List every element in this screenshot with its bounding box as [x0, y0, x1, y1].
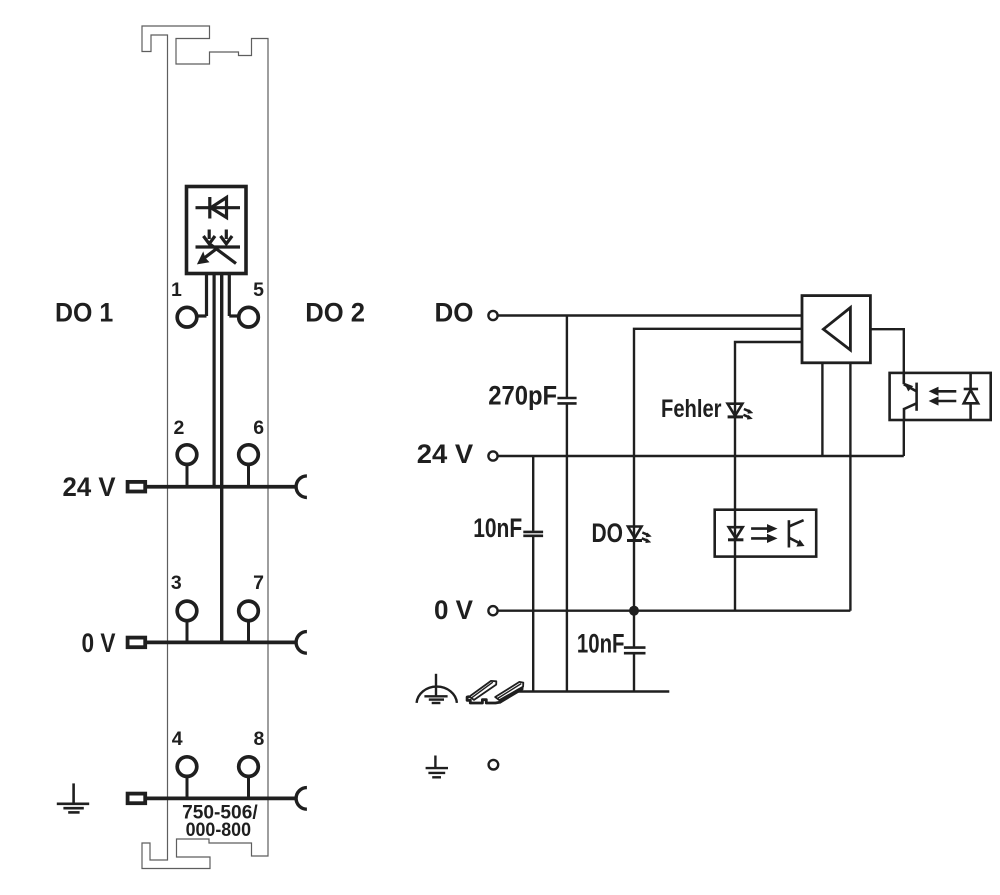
pin wires from LED box: [198, 274, 238, 643]
connector square 0V: [128, 638, 146, 648]
wire amplifier pin B to 24V: [849, 363, 851, 456]
svg-text:1: 1: [171, 279, 182, 301]
clamp arc 24V: [296, 476, 307, 498]
terminal 4: [177, 757, 197, 777]
stub terminal 3 to 0V: [186, 621, 189, 643]
capacitor C1 270pF plates: [557, 398, 576, 403]
terminal 24V: [488, 451, 497, 460]
wire pin to 0V: [220, 274, 223, 643]
wire amplifier input 2: [634, 329, 802, 611]
svg-text:0 V: 0 V: [82, 628, 116, 658]
svg-text:270pF: 270pF: [488, 381, 557, 411]
LED D2 (photo element, inside box bottom): [196, 230, 241, 264]
terminal 2: [177, 445, 197, 465]
stub terminal 7 to 0V: [247, 621, 250, 643]
svg-text:4: 4: [172, 728, 183, 750]
module outline 750-506: [142, 26, 268, 869]
LED DO (indicator): [627, 527, 651, 543]
stub terminal 6 to 24V: [247, 465, 250, 487]
wire 24V rail (module): [146, 485, 297, 489]
stub terminal 2 to 24V: [186, 465, 189, 487]
wire PE rail (schematic bottom): [505, 690, 669, 692]
DIN rail icon: [467, 680, 524, 703]
LED Fehler (indicator): [728, 404, 753, 420]
wire amplifier output: [870, 329, 903, 373]
optocoupler U2 box (top right): [890, 373, 991, 420]
svg-text:10nF: 10nF: [473, 513, 522, 543]
ground symbol (module left): [57, 783, 89, 812]
wire 0V rail (module): [146, 641, 297, 645]
wire 24V to 0V corner (right): [849, 456, 851, 611]
svg-text:8: 8: [253, 728, 264, 750]
optocoupler U2 light arrows: [930, 388, 957, 405]
optocoupler U3 light arrows: [751, 525, 776, 542]
svg-text:6: 6: [253, 417, 264, 439]
capacitor C2 10nF branch wire: [532, 456, 534, 692]
svg-text:DO 2: DO 2: [305, 298, 365, 328]
svg-text:7: 7: [253, 572, 264, 594]
connector square PE: [128, 794, 146, 804]
junction dot 0V / DO-LED branch: [629, 606, 639, 616]
svg-text:DO 1: DO 1: [55, 298, 113, 328]
svg-text:Fehler: Fehler: [661, 395, 722, 423]
svg-text:000-800: 000-800: [186, 819, 252, 841]
amplifier U1 triangle: [823, 308, 850, 350]
wire U2 emitter to 24V: [903, 420, 905, 456]
capacitor C2 10nF plates: [523, 532, 543, 536]
svg-text:24 V: 24 V: [417, 439, 473, 469]
clamp arc PE: [296, 788, 307, 810]
wire pin to 24V: [213, 274, 216, 487]
connector square 24V: [128, 482, 146, 492]
capacitor C1 270pF branch wire: [566, 316, 568, 692]
status LED box: [187, 187, 247, 274]
optocoupler U3 box (middle): [715, 510, 817, 557]
terminal 7: [239, 601, 259, 621]
terminal 3: [177, 601, 197, 621]
capacitor C3 10nF plates: [624, 648, 646, 654]
clamp arc 0V: [296, 632, 307, 654]
LED D1 (diode pointing left, inside box top): [196, 197, 241, 219]
svg-text:24 V: 24 V: [63, 472, 116, 502]
PE dome symbol: [417, 674, 457, 703]
wire 24V rail (schematic): [499, 455, 904, 457]
wire amplifier pin A to 24V: [821, 363, 823, 456]
svg-text:DO: DO: [435, 298, 474, 328]
optocoupler U2 phototransistor: [904, 373, 917, 420]
terminal 8: [239, 757, 259, 777]
wire DO to amplifier: [499, 314, 803, 316]
optocoupler U3 phototransistor: [789, 520, 804, 547]
capacitor C3 10nF branch wire: [633, 611, 635, 692]
wire amplifier input 3 (Fehler branch): [735, 342, 802, 611]
terminal (PE, bottom): [489, 760, 499, 770]
terminal 1: [177, 307, 197, 327]
amplifier U1 box: [802, 296, 870, 363]
terminal 6: [239, 445, 259, 465]
svg-text:5: 5: [253, 279, 264, 301]
svg-text:DO: DO: [592, 518, 624, 548]
wire PE rail (module): [146, 797, 297, 801]
stub terminal 8 to PE: [247, 777, 250, 799]
terminal 5: [239, 307, 259, 327]
svg-text:10nF: 10nF: [577, 629, 625, 659]
terminal 0V: [488, 606, 497, 615]
ground symbol (schematic bottom): [426, 756, 448, 778]
wire 0V rail (schematic): [499, 610, 851, 612]
stub terminal 4 to PE: [186, 777, 189, 799]
svg-text:2: 2: [173, 417, 184, 439]
terminal DO: [488, 311, 497, 320]
svg-text:3: 3: [171, 572, 182, 594]
optocoupler U3 LED: [728, 527, 743, 540]
optocoupler U2 diode: [964, 373, 978, 420]
svg-text:0 V: 0 V: [434, 595, 473, 625]
